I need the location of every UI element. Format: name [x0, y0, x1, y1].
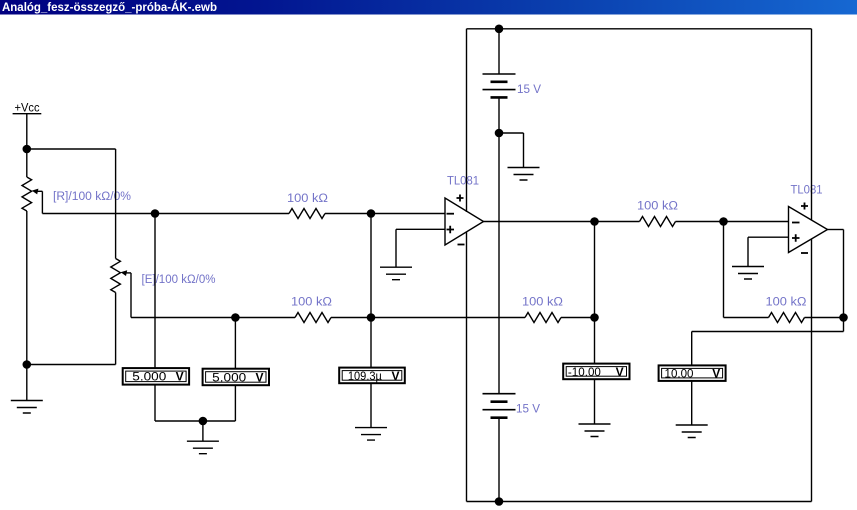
wire to ground under U2 [747, 237, 749, 266]
resistor R5 100k U2 feedback [769, 313, 805, 323]
wire E wiper to node [131, 317, 235, 319]
svg-text:5.000: 5.000 [212, 370, 246, 384]
svg-text:100 kΩ: 100 kΩ [522, 297, 563, 309]
voltmeter VM3 109.3u V [339, 368, 405, 384]
resistor R2 100k input E [295, 313, 331, 323]
svg-text:V: V [176, 370, 184, 384]
pin label + non-inverting input U1 [447, 226, 455, 233]
wire U1 output [484, 221, 595, 223]
wire meter branch horizontal [692, 331, 844, 333]
wire bottom supply rail [467, 501, 812, 503]
node summing bottom [367, 313, 376, 322]
battery V1 15V [483, 74, 516, 97]
wire bottom-left node to E bottom [27, 364, 116, 366]
pin label - inverting input U2 [792, 222, 800, 224]
svg-text:V: V [256, 370, 264, 384]
wire VM1 bottom [155, 385, 203, 421]
svg-text:100 kΩ: 100 kΩ [637, 201, 678, 213]
svg-text:+Vcc: +Vcc [15, 101, 40, 115]
ground U1 non-inverting [380, 267, 412, 280]
wire node to R top [26, 149, 28, 177]
svg-text:100 kΩ: 100 kΩ [766, 297, 807, 309]
svg-text:5.000: 5.000 [132, 370, 166, 384]
ground VM4 [579, 424, 611, 437]
resistor R1 100k input R [289, 209, 325, 219]
svg-text:15 V: 15 V [516, 404, 540, 416]
wire E wiper down [130, 273, 132, 318]
pin label - inverting input U1 [447, 213, 455, 215]
wire node to U2 inverting input [724, 221, 789, 223]
wire Vcc node to E branch [27, 148, 116, 150]
node Vcc junction [23, 145, 32, 154]
wire E bottom down [115, 293, 117, 365]
wire to ground under U1 [395, 229, 397, 267]
wire summing node to feedback resistor R4 [371, 317, 525, 319]
op-amp U1 TL081 triangle [445, 198, 484, 245]
ground supply midpoint [508, 168, 540, 181]
potentiometer R wiper arrow [32, 189, 43, 195]
node summing top [367, 209, 376, 218]
node U1 feedback junction [590, 313, 599, 322]
wire node to ground [202, 421, 204, 441]
wire R bottom down [26, 211, 28, 365]
op-amp U2 TL081 triangle [789, 207, 828, 253]
node +Vcc terminal [13, 101, 42, 115]
wire U2 output [828, 229, 844, 231]
ground VM5 [676, 425, 708, 438]
wire midpoint to ground [499, 133, 524, 168]
wire Vcc stub [26, 114, 28, 149]
ground bottom-left [11, 401, 43, 414]
node supply midpoint [495, 129, 504, 138]
wire E wiper node down to VM2 [234, 318, 236, 369]
wire top supply rail [467, 28, 812, 30]
wire node to ground [26, 365, 28, 401]
pin label - negative supply U2 [801, 252, 808, 254]
wire rail to battery V1 [498, 29, 500, 74]
wire node down to VM4 [594, 318, 596, 364]
wire U1 output node down [594, 222, 596, 318]
wire node to resistor R1 [155, 213, 289, 215]
wire VM3 bottom to ground [370, 383, 372, 427]
wire output node to resistor R3 [595, 221, 640, 223]
node U2 output junction [839, 313, 848, 322]
wire U2 positive supply stub [811, 29, 813, 220]
wire R5 to output node [805, 317, 844, 319]
svg-text:TL081: TL081 [447, 176, 479, 188]
wire summing node down to VM3 [370, 318, 372, 368]
svg-text:10.00: 10.00 [665, 367, 694, 381]
ground U2 non-inverting [732, 267, 764, 280]
svg-text:V: V [616, 365, 624, 379]
potentiometer E body [111, 259, 121, 293]
title bar [0, 0, 857, 15]
node bottom-left junction [23, 360, 32, 369]
node U1 output junction [590, 217, 599, 226]
pin label + positive supply U2 [801, 203, 808, 210]
wire U2 feedback to resistor [724, 317, 769, 319]
wire U1 positive supply stub [466, 29, 468, 212]
svg-text:V: V [392, 369, 400, 383]
wire U1 negative supply stub [466, 232, 468, 502]
ground VM3 [355, 428, 387, 441]
svg-text:109.3µ: 109.3µ [348, 369, 382, 383]
potentiometer R body [22, 177, 32, 211]
node U2 inverting junction [719, 217, 728, 226]
potentiometer E wiper arrow [121, 270, 131, 276]
node E wiper junction [231, 313, 240, 322]
wire midpoint down to battery V2 [498, 133, 500, 394]
wire U2 feedback down [723, 222, 725, 318]
node R wiper junction [151, 209, 160, 218]
wire R wiper node down to VM1 [154, 214, 156, 369]
node meter ground junction [199, 417, 208, 426]
wire R3 to U2 inverting node [676, 221, 724, 223]
resistor R3 100k U2 input [640, 217, 676, 227]
wire R4 to feedback node [561, 317, 595, 319]
wire R wiper down [41, 191, 43, 213]
wire R1 to summing node [325, 213, 371, 215]
svg-text:[R]/100 kΩ/0%: [R]/100 kΩ/0% [53, 191, 131, 203]
voltmeter VM5 10.00 V [659, 365, 726, 381]
wire battery V2 to bottom rail [498, 418, 500, 502]
svg-text:Analóg_fesz-összegző_-próba-ÁK: Analóg_fesz-összegző_-próba-ÁK-.ewb [2, 0, 217, 14]
wire node to resistor R2 [235, 317, 295, 319]
wire summing node to op-amp U1 inverting input [371, 213, 445, 215]
svg-text:100 kΩ: 100 kΩ [287, 193, 328, 205]
wire meter branch down to VM5 [691, 332, 693, 366]
wire VM2 bottom [203, 385, 236, 421]
wire output node to meter branch [843, 318, 845, 332]
wire op-amp U1 non-inverting input [396, 228, 445, 230]
svg-text:TL081: TL081 [791, 185, 823, 197]
resistor R4 100k U1 feedback [525, 313, 561, 323]
wire R2 to summing node bottom [331, 317, 371, 319]
svg-text:100 kΩ: 100 kΩ [291, 297, 332, 309]
node battery V2 bottom [495, 497, 504, 506]
wire E branch down [115, 149, 117, 259]
wire VM5 bottom to ground [691, 381, 693, 425]
wire VM4 bottom to ground [594, 379, 596, 424]
wire U2 negative supply stub [811, 239, 813, 502]
voltmeter VM1 5.000 V [123, 368, 189, 385]
wire battery V1 to midpoint node [498, 97, 500, 133]
node battery V1 top [495, 25, 504, 34]
wire U2 non-inverting input [748, 236, 789, 238]
pin label + non-inverting input U2 [792, 234, 800, 241]
pin label + positive supply U1 [457, 195, 464, 202]
wire R wiper to node [42, 213, 155, 215]
pin label - negative supply U1 [458, 244, 465, 246]
battery V2 15V [483, 394, 516, 418]
ground meters VM1 VM2 [187, 441, 219, 454]
svg-text:[E]/100 kΩ/0%: [E]/100 kΩ/0% [142, 274, 216, 286]
voltmeter VM2 5.000 V [203, 369, 269, 386]
svg-text:-10.00: -10.00 [568, 365, 601, 379]
voltmeter VM4 -10.00 V [563, 364, 629, 380]
svg-text:15 V: 15 V [517, 84, 541, 96]
svg-text:V: V [712, 367, 720, 381]
wire summing vertical [370, 214, 372, 318]
wire U2 output down [843, 230, 845, 318]
